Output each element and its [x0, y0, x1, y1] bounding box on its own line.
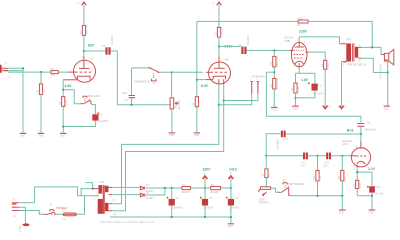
svg-text:220K/.5W: 220K/.5W — [86, 24, 89, 35]
supply arrow down (net C) — [339, 106, 347, 109]
resistor R16 — [313, 170, 322, 181]
ground (R9) — [194, 133, 201, 137]
svg-text:141V: 141V — [229, 168, 238, 172]
transformer TR1 — [343, 37, 366, 66]
wire V2A grid junction down to R7 — [265, 156, 267, 169]
wire C2 to rail — [204, 206, 206, 218]
svg-text:270R: 270R — [297, 87, 300, 93]
wire screen to R12 — [309, 52, 325, 60]
wire R1 to node B — [190, 187, 210, 189]
wire R11 to plate node — [218, 37, 220, 56]
svg-text:22u/25V: 22u/25V — [99, 120, 108, 123]
wire jack tip stub — [8, 68, 23, 70]
svg-text:R15: R15 — [291, 87, 294, 92]
speaker SP1 — [380, 49, 394, 79]
wire C1 drop — [171, 188, 173, 199]
resistor R14 divider lower — [270, 78, 279, 89]
svg-text:C: C — [204, 172, 206, 175]
svg-text:B+3: B+3 — [347, 129, 353, 133]
junction node 141V — [230, 187, 232, 189]
wire C4 return to cathode ground — [63, 121, 95, 127]
svg-text:100p: 100p — [122, 92, 128, 95]
switch S4 SW/GAIN — [81, 94, 101, 104]
svg-text:4.8V: 4.8V — [65, 84, 73, 88]
svg-text:2.7K: 2.7K — [199, 101, 202, 106]
svg-text:22n: 22n — [301, 165, 306, 168]
wire R13 to tap — [273, 67, 275, 79]
svg-text:1A: 1A — [63, 218, 66, 221]
svg-text:PRI:5K SEC:8: PRI:5K SEC:8 — [348, 62, 367, 66]
wire to R2 — [40, 72, 42, 84]
wire C10 to V2A plate — [360, 126, 362, 141]
wire OT secondary top to speaker — [358, 46, 361, 48]
diode D2 — [140, 191, 154, 200]
svg-text:ALTERNATE: ALTERNATE — [252, 76, 266, 79]
wire pentode cathode — [296, 67, 315, 83]
wire R14 to ground — [273, 89, 275, 107]
svg-text:C: C — [345, 106, 347, 109]
node 141V — [218, 45, 220, 47]
triode V1B — [206, 57, 231, 85]
svg-text:V2B: V2B — [285, 39, 291, 43]
wire feedback line right to OT secondary — [308, 21, 372, 47]
svg-text:22k/2W: 22k/2W — [210, 191, 219, 194]
capacitor C8 — [277, 131, 289, 150]
svg-text:1M: 1M — [43, 90, 46, 93]
svg-text:2.7K: 2.7K — [65, 100, 68, 105]
junction jack — [22, 67, 24, 69]
node 82V — [83, 50, 85, 52]
resistor R11 (V1B plate load) — [215, 26, 224, 37]
wire R5 to ground — [62, 106, 64, 133]
wire C6 to volume line — [131, 98, 133, 105]
svg-text:R14: R14 — [270, 83, 273, 88]
input jack J1 — [0, 62, 12, 79]
junction C1 — [171, 187, 173, 189]
wire R15 to ground — [295, 93, 297, 106]
resistor R1 — [182, 184, 191, 194]
svg-text:220V: 220V — [203, 168, 212, 172]
wire feedback drop to divider — [196, 21, 198, 96]
bottom return rail — [110, 216, 231, 218]
wire mains PE to AGND — [19, 207, 25, 223]
svg-text:218V: 218V — [299, 30, 308, 34]
capacitor C12b — [324, 153, 331, 168]
svg-text:GND: GND — [339, 211, 345, 214]
svg-text:C: C — [78, 2, 80, 5]
svg-text:GND: GND — [228, 225, 234, 228]
wire pot to ground — [171, 109, 173, 132]
svg-text:TR2: TR2 — [99, 180, 105, 184]
svg-text:V1B: V1B — [225, 59, 230, 62]
capacitor C4 bypass — [92, 112, 108, 122]
wire C5 to volume line — [111, 51, 171, 105]
mains connector X1 — [12, 199, 19, 218]
svg-text:33u/385V: 33u/385V — [277, 139, 280, 150]
wire R16 to bus — [317, 181, 319, 196]
svg-text:GND: GND — [169, 134, 175, 137]
svg-text:22n: 22n — [324, 165, 329, 168]
switch S3 SW/TRIODE — [279, 180, 305, 196]
svg-text:R16: R16 — [313, 175, 316, 180]
ground (speaker) — [384, 106, 391, 110]
triode V2A ECL82 — [343, 139, 371, 171]
svg-text:1N4007: 1N4007 — [145, 197, 154, 200]
wire mains N to S1 — [19, 211, 44, 215]
trimpot R8 — [258, 187, 270, 205]
wire F1 to TR2 primary bottom — [76, 196, 84, 215]
wire R12 to supply arrow — [324, 69, 326, 105]
wire to header pin 1 — [219, 93, 252, 105]
svg-text:GND: GND — [60, 135, 66, 138]
capacitor C5 (coupling) — [102, 36, 114, 55]
svg-text:C14: C14 — [376, 186, 381, 189]
wire to ground — [387, 73, 389, 106]
capacitor C3 — [226, 197, 240, 210]
wire C8 to V2A grid line — [266, 134, 281, 156]
feedback resistor R10 — [297, 17, 309, 26]
fuse F1 — [62, 210, 76, 221]
svg-text:4K7: 4K7 — [268, 172, 271, 177]
svg-text:1.1V: 1.1V — [368, 167, 376, 171]
svg-text:GND: GND — [384, 108, 390, 111]
svg-text:SW/BRIGHT: SW/BRIGHT — [134, 79, 151, 83]
wire grid line right segment — [331, 155, 351, 157]
wire filament f1 — [112, 85, 219, 204]
pin header P2 — [256, 79, 259, 93]
wire R17 drop — [341, 156, 343, 171]
ground (PSU) — [228, 224, 235, 228]
wire node to C5 — [84, 50, 106, 52]
switch S1 POWER — [44, 204, 68, 215]
supply arrow (net C) V1B — [213, 2, 222, 5]
junction grid divider — [273, 49, 275, 51]
wire cathode node — [63, 80, 80, 104]
resistor R2 1M — [37, 84, 46, 95]
svg-text:47K: 47K — [51, 74, 56, 77]
svg-text:220K/.5W: 220K/.5W — [276, 56, 279, 67]
wire HT bottom to D2 — [112, 194, 140, 196]
wire feedback line left — [197, 20, 298, 22]
wire TR2 primary link — [81, 183, 93, 196]
svg-text:R13: R13 — [270, 61, 273, 66]
wire to header pin 2 — [224, 93, 258, 101]
grid bus to ground — [290, 196, 342, 210]
wire bright to grid line — [161, 71, 204, 73]
wire C7 to pentode grid — [247, 50, 291, 52]
junction feedback tap — [371, 46, 373, 48]
wire C9 — [296, 73, 315, 98]
svg-text:AGND: AGND — [19, 225, 22, 232]
wire junction to pot — [171, 72, 173, 98]
wire jack shunt to ground — [22, 71, 24, 133]
junction cathode return — [294, 97, 296, 99]
capacitor C9 cathode bypass — [308, 82, 324, 95]
wire switch to C4 — [91, 105, 95, 115]
wire node to C7 — [219, 45, 241, 47]
wire OT secondary bottom loop — [358, 57, 361, 59]
svg-text:22u/63V: 22u/63V — [247, 36, 250, 45]
svg-text:TR1: TR1 — [346, 37, 352, 41]
resistor R17 — [338, 170, 347, 181]
svg-text:8.5V: 8.5V — [201, 84, 209, 88]
ground (R14) — [271, 107, 278, 111]
wire V2A cathode — [357, 168, 372, 187]
wire filament f2 — [112, 85, 223, 211]
svg-text:GND: GND — [20, 135, 26, 138]
junction cathode — [62, 89, 64, 91]
capacitor C1 — [167, 197, 184, 210]
junction node 220V — [204, 187, 206, 189]
junction grid line — [265, 155, 267, 157]
svg-text:PRI:230V SEC1:2x115V.2A SEC2:6: PRI:230V SEC1:2x115V.2A SEC2:6.3V — [100, 221, 155, 224]
capacitor C11 — [301, 153, 308, 168]
svg-text:GND: GND — [194, 134, 200, 137]
svg-text:470K: 470K — [319, 175, 322, 181]
pentode V2B ECL82 — [285, 36, 309, 67]
supply arrow up 141V — [228, 168, 237, 179]
resistor R15 cathode — [291, 83, 300, 93]
junction rectifier — [164, 187, 166, 189]
svg-text:22u/63V: 22u/63V — [111, 36, 114, 45]
wire plate node to C8 — [285, 133, 361, 135]
wire HT top to D1 — [112, 186, 140, 188]
svg-text:18u/400V: 18u/400V — [173, 206, 184, 209]
wire R16 drop — [317, 156, 319, 171]
junction f2/P2 — [223, 99, 225, 101]
junction C11/R16 — [316, 155, 318, 157]
junction feedback/cathode — [196, 79, 198, 81]
svg-text:VOLUME: VOLUME — [178, 99, 181, 110]
svg-text:V1A: V1A — [89, 58, 94, 61]
junction grid leak — [40, 71, 42, 73]
svg-text:R18: R18 — [353, 183, 356, 188]
svg-text:GND: GND — [293, 107, 299, 110]
potentiometer P1 500kA VOLUME — [170, 98, 181, 110]
svg-text:SPKR 8R/5W: SPKR 8R/5W — [380, 64, 383, 79]
capacitor C6 100p — [122, 92, 135, 102]
wire grid line mid segment — [308, 155, 326, 157]
wire arrow to C3 — [230, 179, 232, 199]
junction cathode — [356, 171, 358, 173]
resistor R12 screen — [321, 60, 330, 69]
junction — [371, 195, 373, 197]
ground (R2) — [38, 133, 45, 137]
triode V1A — [63, 56, 95, 82]
supply arrow up 220V — [202, 168, 211, 179]
svg-text:82V: 82V — [88, 44, 95, 48]
svg-text:47K: 47K — [297, 24, 302, 27]
resistor R4 (V1A plate load) — [80, 24, 89, 36]
svg-text:1M: 1M — [344, 178, 347, 181]
wire rectifier node — [145, 188, 182, 195]
svg-text:R17: R17 — [338, 175, 341, 180]
wire arrow to C2 — [204, 179, 206, 199]
supply arrow down (net D) — [323, 106, 331, 109]
capacitor C14 cathode bypass — [367, 186, 384, 195]
resistor R13 divider upper — [270, 56, 279, 67]
supply arrow P+ (net C) top-left — [78, 2, 87, 5]
resistor R6 — [210, 184, 220, 194]
svg-text:D: D — [329, 106, 331, 109]
ground (input jack) — [20, 133, 27, 137]
wire R2 to ground — [40, 94, 42, 132]
junction speaker ground — [387, 71, 389, 73]
ground (grid bus) — [339, 210, 346, 214]
wire R9 to ground — [196, 107, 198, 133]
wire primary bottom to supply arrow — [341, 62, 343, 106]
svg-text:GND: GND — [369, 211, 375, 214]
wire R3 to grid — [58, 71, 68, 73]
capacitor C10 — [358, 122, 377, 132]
wire supply to R4 — [83, 5, 85, 25]
wire C1 to rail — [171, 206, 173, 218]
earth ground AGND — [19, 223, 30, 232]
wire S1 to F1 — [55, 213, 63, 215]
svg-text:220K/.5W: 220K/.5W — [221, 26, 224, 37]
resistor R3 (grid stopper) — [50, 68, 58, 77]
junction C13/R17 — [341, 155, 343, 157]
wire mains L to TR2 — [19, 187, 96, 203]
wire plate to OT primary — [299, 37, 339, 44]
wire divider tap to B+3 run — [266, 72, 361, 122]
resistor R5 cathode — [59, 97, 68, 107]
wire R4 to plate — [83, 35, 85, 56]
svg-text:GND: GND — [38, 135, 44, 138]
svg-text:2k2/2W: 2k2/2W — [182, 191, 191, 194]
resistor R7 hum divider — [262, 169, 271, 178]
wire supply to R11 — [218, 5, 220, 27]
junction V2A plate node — [360, 133, 362, 135]
svg-text:GND: GND — [271, 109, 277, 112]
wire R17 to bus — [341, 181, 343, 196]
switch S2 SW/BRIGHT — [134, 67, 161, 85]
wire C3 to rail end — [230, 206, 232, 224]
junction divider tap — [273, 71, 275, 73]
transformer TR2 — [93, 180, 117, 216]
wire tap to V2A run — [266, 71, 274, 73]
wire to V1B cathode pin — [197, 79, 206, 81]
diode D1 — [140, 184, 154, 193]
junction f1/P1 — [218, 104, 220, 106]
svg-text:V2A: V2A — [343, 142, 349, 146]
resistor R18 cathode — [353, 180, 362, 188]
resistor R9 feedback shunt — [193, 97, 202, 107]
wire grid line left segment — [266, 155, 303, 157]
svg-text:R10: R10 — [298, 17, 303, 20]
capacitor C2 — [200, 197, 214, 210]
wire R7 to trimpot — [265, 178, 267, 187]
svg-text:C10: C10 — [366, 122, 371, 125]
pin header P1 — [250, 79, 253, 93]
svg-text:TRIMPOT: TRIMPOT — [259, 201, 270, 204]
wire cathode network join — [357, 189, 372, 210]
wire trimpot to S3 — [271, 188, 279, 192]
svg-text:R12: R12 — [321, 63, 324, 68]
pin primary top — [340, 43, 347, 45]
pin primary bottom — [342, 61, 347, 63]
ground (V2A cathode) — [369, 210, 376, 214]
ground (pentode cathode) — [292, 106, 299, 110]
svg-text:470R: 470R — [359, 183, 362, 189]
svg-text:220R: 220R — [327, 63, 330, 69]
svg-text:22u/25V: 22u/25V — [375, 192, 384, 195]
svg-text:100n/400V: 100n/400V — [365, 128, 377, 131]
wire R6 to node 141V — [221, 187, 231, 189]
svg-text:100K/.5W: 100K/.5W — [276, 78, 279, 89]
svg-text:1.8V: 1.8V — [301, 78, 309, 82]
wire jack to R3 — [8, 71, 51, 73]
junction bright/pot — [171, 71, 173, 73]
wire bright branch — [132, 68, 148, 95]
capacitor C7 coupling — [238, 36, 250, 54]
ground (cathode) — [60, 133, 67, 137]
svg-text:R11: R11 — [215, 31, 218, 36]
svg-text:SW/TRIODE: SW/TRIODE — [288, 182, 304, 186]
svg-text:C: C — [213, 2, 215, 5]
wire junction to R13 — [273, 51, 275, 57]
ground (pot) — [169, 133, 176, 137]
